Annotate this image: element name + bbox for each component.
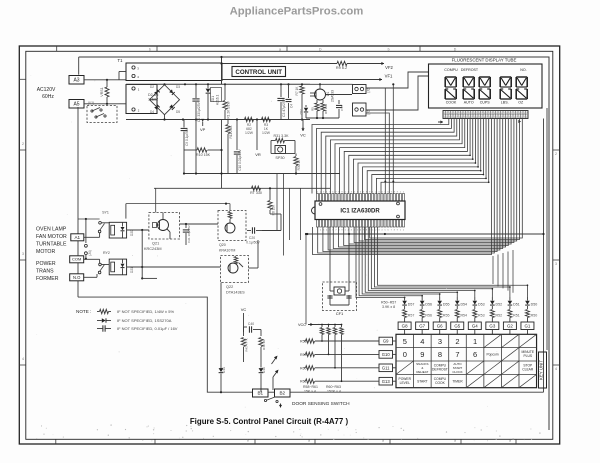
wire top rail to J2 <box>310 83 353 85</box>
svg-text:G11: G11 <box>382 366 390 371</box>
resistor R59 <box>304 353 305 355</box>
wire IC1 bottom pin to diode D55 <box>362 227 440 297</box>
wire test bundle vertical b <box>283 174 285 256</box>
junction dots on rails <box>163 83 165 85</box>
diode D53 <box>474 297 476 301</box>
svg-text:D51: D51 <box>513 303 520 307</box>
svg-text:FAN MOTOR: FAN MOTOR <box>36 234 67 240</box>
wire display pin 24 to IC1 bottom pin 8 <box>349 119 511 245</box>
svg-text:AUTO: AUTO <box>464 101 474 105</box>
key unit label box <box>539 352 547 388</box>
wire filament VF1 <box>222 79 378 81</box>
svg-text:IF NOT SPECIFIED, 1/4W ± 5%: IF NOT SPECIFIED, 1/4W ± 5% <box>117 309 174 314</box>
wire IC1 bottom pin to diode D54 <box>365 227 457 297</box>
svg-text:R31 3.3K: R31 3.3K <box>274 134 290 138</box>
wire Q20 right <box>262 230 281 232</box>
terminal NO <box>70 274 84 281</box>
svg-text:b: b <box>388 47 390 51</box>
display tube box <box>429 64 543 108</box>
svg-text:C10 0.01μ/25V: C10 0.01μ/25V <box>238 148 242 170</box>
bridge diode D2 <box>154 90 160 96</box>
diode D41 <box>219 368 224 372</box>
connector J2 upper <box>353 85 367 94</box>
capacitor C4 <box>288 84 290 98</box>
resistor R2 682 1/2W <box>245 117 254 121</box>
svg-text:R9 6.2: R9 6.2 <box>336 66 347 70</box>
interlock switch U1 dashed box <box>87 106 117 123</box>
wire bridge bottom rail <box>164 115 166 120</box>
arrow testpoint near B2 <box>272 377 274 390</box>
svg-text:AC120V: AC120V <box>37 87 56 93</box>
svg-text:Figure S-5. Control Panel Circ: Figure S-5. Control Panel Circuit (R-4A7… <box>190 417 349 426</box>
vertical bus from control top <box>221 57 223 84</box>
svg-text:152K x 4: 152K x 4 <box>327 390 341 394</box>
svg-text:3: 3 <box>22 252 24 256</box>
zener ZD1 HZ16.1 <box>207 84 209 88</box>
svg-text:NO.: NO. <box>520 68 526 72</box>
svg-text:AppliancePartsPros.com: AppliancePartsPros.com <box>230 5 364 17</box>
svg-text:2SA933: 2SA933 <box>331 90 335 102</box>
svg-text:VC: VC <box>300 133 306 138</box>
svg-text:N.O: N.O <box>73 275 81 280</box>
svg-text:a: a <box>308 439 310 443</box>
svg-text:4: 4 <box>420 337 424 346</box>
transformer T1 filament terminals <box>132 66 135 69</box>
svg-text:IF NOT SPECIFIED, 1SS270A: IF NOT SPECIFIED, 1SS270A <box>117 318 172 323</box>
svg-text:G5: G5 <box>454 324 460 329</box>
svg-text:D21: D21 <box>130 267 134 273</box>
terminal G8 <box>398 322 411 330</box>
svg-text:(U1): (U1) <box>88 101 95 105</box>
wire display pin 28 to IC1 bottom pin 12 <box>370 119 523 239</box>
svg-text:KEY UNIT: KEY UNIT <box>539 360 544 380</box>
svg-text:0: 0 <box>403 350 407 359</box>
inner border frame <box>26 51 553 439</box>
wire switch1 to coil1 <box>101 222 109 224</box>
resistor R52 <box>491 306 493 309</box>
wire display pin 14 to IC1 top pin 14 <box>372 119 484 194</box>
wire display pin 10 to IC1 top pin 10 <box>353 119 472 194</box>
svg-text:R55: R55 <box>443 314 450 318</box>
svg-text:HZ16.1: HZ16.1 <box>216 95 220 106</box>
wire R3 to right <box>271 119 302 121</box>
wire J2 upper to display <box>366 72 429 88</box>
buzzer SP30 <box>275 146 286 154</box>
svg-text:D57: D57 <box>408 303 415 307</box>
terminal G1 <box>521 322 534 330</box>
wire display pin 16 to IC1 top pin 16 <box>381 119 489 194</box>
svg-text:R50: R50 <box>531 314 538 318</box>
svg-text:FORMER: FORMER <box>36 276 59 282</box>
relay coil RY1 box <box>109 222 126 238</box>
svg-text:2: 2 <box>455 337 459 346</box>
svg-text:PLUS: PLUS <box>523 354 532 358</box>
node VB vertical <box>256 120 258 147</box>
wire relay common vertical <box>141 230 143 278</box>
resistor R60 <box>304 367 305 369</box>
transistor Q1 2SA933 <box>315 89 326 100</box>
svg-text:G8: G8 <box>402 324 408 329</box>
terminal A5 <box>69 100 84 109</box>
svg-text:D4: D4 <box>150 110 154 114</box>
wire NO to relay2 <box>84 276 97 278</box>
resistor R40 1K <box>260 330 262 337</box>
resistor R61 <box>304 380 305 382</box>
ceramic filter CF1 dashed box <box>323 282 357 311</box>
svg-text:R60: R60 <box>300 366 307 370</box>
resistor R51 <box>509 306 511 309</box>
svg-text:D40: D40 <box>262 367 266 373</box>
svg-text:D41: D41 <box>222 367 226 373</box>
svg-text:6: 6 <box>473 350 477 359</box>
resistor R9 6.2 <box>337 61 347 65</box>
svg-text:R11 2.4K: R11 2.4K <box>229 125 233 139</box>
svg-text:4: 4 <box>22 357 24 361</box>
svg-text:COM: COM <box>72 257 81 262</box>
transistor Q20 symbol <box>225 223 235 233</box>
svg-text:60Hz: 60Hz <box>42 94 54 100</box>
svg-text:G6: G6 <box>437 324 443 329</box>
wire J2 lower to IC1 <box>366 113 389 194</box>
terminal G13 <box>379 377 393 385</box>
wire left bus through terminals <box>77 241 79 256</box>
display digits top row <box>445 76 456 78</box>
relay coil RY2 box <box>109 259 126 275</box>
IC1 top pin row <box>317 194 319 202</box>
svg-text:CLEAR: CLEAR <box>522 368 534 372</box>
wire relay top feed <box>78 218 100 220</box>
svg-text:IF NOT SPECIFIED, 0.01μF / 16: IF NOT SPECIFIED, 0.01μF / 16V <box>117 326 178 331</box>
capacitor C15 <box>338 100 340 104</box>
svg-text:R59: R59 <box>300 353 307 357</box>
wire Q22 right up <box>249 267 259 269</box>
svg-text:IC1 IZA630DR: IC1 IZA630DR <box>340 209 380 215</box>
testpoint VC arrow <box>302 120 304 129</box>
pullup resistor R60 to key row 1 <box>321 325 323 328</box>
resistor R55 <box>439 306 441 309</box>
pullup resistor R63 to key row 4 <box>341 325 343 328</box>
svg-text:B1: B1 <box>257 391 263 396</box>
svg-text:DEFROST: DEFROST <box>432 368 448 372</box>
resistor R54 <box>456 306 458 309</box>
resistor R53 <box>474 306 476 309</box>
svg-text:a: a <box>509 439 511 443</box>
connector J2 lower <box>353 103 367 116</box>
svg-text:1/2W: 1/2W <box>262 131 271 135</box>
terminal G2 <box>503 322 516 330</box>
wire display pin 20 to IC1 bottom pin 4 <box>328 119 500 251</box>
svg-text:3: 3 <box>438 337 442 346</box>
terminal B1 <box>253 389 269 397</box>
resistor R31 3.3K <box>276 138 285 142</box>
border tick marks <box>56 46 58 51</box>
control unit label box <box>232 67 286 77</box>
wire rail to Q21 collector <box>155 188 157 212</box>
svg-text:1: 1 <box>473 337 477 346</box>
svg-text:3.9K x 8: 3.9K x 8 <box>382 305 395 309</box>
svg-text:D5: D5 <box>176 110 180 114</box>
svg-text:D50: D50 <box>531 303 538 307</box>
wire display pin 17 to IC1 bottom pin 1 <box>313 119 492 255</box>
svg-text:ZD2: ZD2 <box>299 109 303 115</box>
wire test bundle vertical c <box>289 188 291 240</box>
svg-text:REHEAT: REHEAT <box>416 370 428 374</box>
wire bus continuation vertical 2 <box>497 255 499 287</box>
wire display pin 23 to IC1 bottom pin 7 <box>344 119 509 246</box>
wire bottom bus right <box>290 391 544 393</box>
wire test bundle vertical d <box>300 188 302 240</box>
resistor R57 <box>404 306 406 309</box>
svg-text:1/2W: 1/2W <box>245 131 254 135</box>
resistor R30 1K <box>295 154 297 157</box>
capacitor C20 0.1u/50V <box>247 230 251 232</box>
svg-text:A5: A5 <box>73 102 79 108</box>
svg-text:VF2: VF2 <box>385 65 393 70</box>
transformer T1 secondary terminals <box>132 87 135 90</box>
svg-text:G7: G7 <box>419 324 425 329</box>
terminal G7 <box>416 322 429 330</box>
svg-text:LEVEL: LEVEL <box>400 381 410 385</box>
svg-text:CLOCK: CLOCK <box>452 370 462 374</box>
testpoint arrow near D40 <box>272 357 277 364</box>
svg-text:DTA143ES: DTA143ES <box>226 291 245 295</box>
svg-text:D54: D54 <box>460 303 467 307</box>
wire VCC feed vertical <box>305 234 307 325</box>
transistor Q22 DTA143ES dashed box <box>221 256 249 283</box>
wire relay supply riser <box>125 204 127 219</box>
terminal G4 <box>468 322 481 330</box>
svg-text:COMPU: COMPU <box>444 68 458 72</box>
svg-text:b: b <box>247 439 249 443</box>
wire A5 down-left bus <box>77 107 79 234</box>
varistor VRS1 <box>105 87 109 97</box>
svg-text:RY2: RY2 <box>103 251 110 255</box>
wire IC1 bottom pin to diode D53 <box>368 227 475 297</box>
svg-text:START: START <box>417 379 428 383</box>
capacitor C40 <box>244 326 248 328</box>
bridge diode D4 <box>154 105 160 111</box>
svg-text:R41 4.7 K: R41 4.7 K <box>245 338 249 351</box>
svg-text:R58~R61: R58~R61 <box>303 385 318 389</box>
note resistor symbol <box>100 309 109 313</box>
svg-text:7: 7 <box>455 350 459 359</box>
testpoint VP arrow <box>202 121 204 123</box>
transistor Q22 symbol <box>228 263 238 273</box>
svg-text:R10 15K: R10 15K <box>196 153 211 157</box>
capacitor C9 0.1u/50V <box>181 127 188 129</box>
svg-text:D20: D20 <box>130 230 134 236</box>
svg-text:R54: R54 <box>460 314 467 318</box>
terminal G6 <box>433 322 446 330</box>
outer border frame <box>19 46 559 444</box>
svg-text:FLUORESCENT DISPLAY TUBE: FLUORESCENT DISPLAY TUBE <box>452 58 517 63</box>
wire connector to COM <box>85 219 87 243</box>
IC1 IZA630DR body <box>315 201 405 220</box>
wire Q1 collector <box>319 84 321 89</box>
svg-text:ZD1: ZD1 <box>211 96 215 102</box>
vertical from rail x184 <box>183 120 185 128</box>
bridge diode D3 <box>169 89 175 95</box>
note capacitor symbol <box>102 325 104 331</box>
display digits bottom row <box>444 89 446 99</box>
note diode symbol <box>102 318 106 322</box>
vertical from rail x196 <box>195 120 197 174</box>
wire display pin 25 to IC1 bottom pin 9 <box>354 119 514 243</box>
diode D50 <box>526 297 528 301</box>
testpoint VR arrow <box>256 146 258 150</box>
svg-text:R58: R58 <box>300 340 307 344</box>
resistor R6 15K <box>322 100 324 103</box>
wire NO to bottom bus <box>78 297 253 392</box>
svg-text:(J4): (J4) <box>88 250 92 256</box>
diode D56 <box>421 297 423 301</box>
key matrix empty cell diagonals <box>484 334 502 347</box>
svg-text:SP30: SP30 <box>275 156 284 160</box>
terminal COM <box>70 256 84 263</box>
svg-text:4: 4 <box>555 367 557 371</box>
IC1 bottom pin row <box>317 220 319 228</box>
svg-text:a: a <box>279 48 281 52</box>
wire IC1 bottom pin to diode D56 <box>359 227 422 297</box>
svg-text:C21 10μ/35V: C21 10μ/35V <box>187 225 191 243</box>
terminal G5 <box>451 322 464 330</box>
terminal A3 <box>69 76 84 85</box>
wire Q22 down <box>220 283 222 371</box>
resistor R3 1K 1/2W <box>262 117 271 121</box>
wire IC1 bottom pin to diode D50 <box>377 227 527 297</box>
svg-text:VR: VR <box>255 152 261 157</box>
svg-text:R51: R51 <box>513 314 520 318</box>
wire coil1 to Q21 <box>127 229 149 231</box>
wire A3 right <box>84 79 119 81</box>
relay switch RY1 <box>99 222 102 225</box>
diode D57 <box>404 297 406 301</box>
svg-text:G2: G2 <box>507 324 513 329</box>
wire display pin 12 to IC1 top pin 12 <box>363 119 478 194</box>
transformer T1 filament winding box <box>126 63 222 81</box>
wire display pin 22 to IC1 bottom pin 6 <box>339 119 506 248</box>
svg-text:C15: C15 <box>340 105 344 111</box>
svg-text:G1: G1 <box>525 324 531 329</box>
wire display pin 11 to IC1 top pin 11 <box>358 119 475 194</box>
interlock switch contacts <box>91 110 93 112</box>
svg-text:CUPS: CUPS <box>480 101 491 105</box>
diode D54 <box>456 297 458 301</box>
display strip entry arrow <box>438 121 443 123</box>
wire display pin 27 to IC1 bottom pin 11 <box>365 119 520 240</box>
wire IC1 bottom pin to diode D57 <box>356 227 405 298</box>
svg-text:C4: C4 <box>290 104 294 108</box>
svg-text:R61: R61 <box>300 380 307 384</box>
wire bus continuation vertical 5 <box>512 250 514 293</box>
capacitor C21 10u/35V <box>185 224 187 228</box>
wire R9 to VF2 arrow <box>347 63 380 65</box>
svg-text:9: 9 <box>420 350 424 359</box>
svg-text:KRA107M: KRA107M <box>219 249 235 253</box>
wire CF1 up a <box>329 227 331 287</box>
wire IC1 bottom pin to diode D51 <box>374 227 509 297</box>
pullup rail <box>313 324 342 326</box>
wire mid rail b <box>154 187 330 189</box>
svg-text:VC: VC <box>241 307 247 312</box>
transistor Q21 symbol <box>158 220 169 231</box>
svg-text:15K x 4: 15K x 4 <box>304 390 316 394</box>
transistor Q20 KRA107M dashed box <box>218 211 246 241</box>
wire filament VF2 <box>222 63 337 65</box>
wire CF1 up b <box>348 234 350 287</box>
wire IC1 bottom pin to diode D52 <box>371 227 492 297</box>
svg-text:R52: R52 <box>496 314 503 318</box>
wire A5 right <box>84 103 119 105</box>
wire display pin 9 to IC1 top pin 9 <box>349 119 470 194</box>
resistor R1 2K 1/2W <box>224 84 226 100</box>
wire test bundle vertical a <box>276 174 278 231</box>
svg-text:R40 1K: R40 1K <box>262 340 266 350</box>
svg-text:G3: G3 <box>489 324 495 329</box>
svg-text:A1: A1 <box>74 235 80 240</box>
svg-text:R50~R57: R50~R57 <box>381 301 396 305</box>
wire right bus b <box>546 108 548 350</box>
resistor R50 <box>526 306 528 309</box>
wire display pin 18 to IC1 bottom pin 2 <box>318 119 495 254</box>
wire J2 lower to display <box>366 76 429 110</box>
svg-text:R60~R63: R60~R63 <box>326 385 341 389</box>
svg-text:OZ: OZ <box>518 101 524 105</box>
wire display pin 8 to IC1 top pin 8 <box>344 119 467 194</box>
wire display pin 26 to IC1 bottom pin 10 <box>359 119 516 242</box>
resistor R7 1K <box>301 84 303 86</box>
svg-text:COOK: COOK <box>435 381 446 385</box>
svg-text:Q21: Q21 <box>152 242 159 246</box>
wire A3 riser to top line <box>78 57 80 75</box>
svg-text:R7 1K: R7 1K <box>295 86 299 96</box>
svg-text:2: 2 <box>22 142 24 146</box>
resistor R56 <box>421 306 423 309</box>
wire switch2 to coil2 <box>101 264 109 266</box>
wire coil2 to Q22 <box>127 266 221 268</box>
wire bottom bus mid <box>268 391 275 393</box>
pullup resistor R62 to key row 3 <box>334 325 336 328</box>
svg-text:8: 8 <box>438 350 442 359</box>
wire right bus a <box>543 119 545 393</box>
svg-text:C2 330μ/25V: C2 330μ/25V <box>197 101 201 122</box>
door sensing switch <box>264 399 266 401</box>
svg-text:2: 2 <box>555 152 557 156</box>
svg-text:G4: G4 <box>472 324 478 329</box>
svg-text:LBS.: LBS. <box>501 101 509 105</box>
svg-text:R30 1K: R30 1K <box>297 159 301 171</box>
wire display pin 4 to IC1 top pin 4 <box>326 119 457 194</box>
wire display pin 1 to IC1 top pin 1 <box>312 119 449 194</box>
resistor R10 15K <box>197 148 207 152</box>
wire display pin 3 to IC1 top pin 3 <box>321 119 454 194</box>
wire rail to IC1 pin <box>392 84 394 193</box>
wire bus continuation vertical 3 <box>502 253 504 288</box>
resistor R11 2.4K <box>227 120 229 125</box>
svg-text:a: a <box>454 439 456 443</box>
terminal A1 <box>71 234 84 241</box>
terminal G11 <box>379 364 393 372</box>
svg-text:C20: C20 <box>249 236 255 240</box>
svg-text:5: 5 <box>403 337 407 346</box>
wire display pin 21 to IC1 bottom pin 5 <box>333 119 502 249</box>
wire T1 primary left <box>119 79 126 81</box>
svg-text:POWER: POWER <box>36 261 56 267</box>
svg-text:R53: R53 <box>478 314 485 318</box>
terminal G10 <box>379 351 393 359</box>
svg-text:T1: T1 <box>118 58 124 63</box>
wire display pin 19 to IC1 bottom pin 3 <box>323 119 497 252</box>
